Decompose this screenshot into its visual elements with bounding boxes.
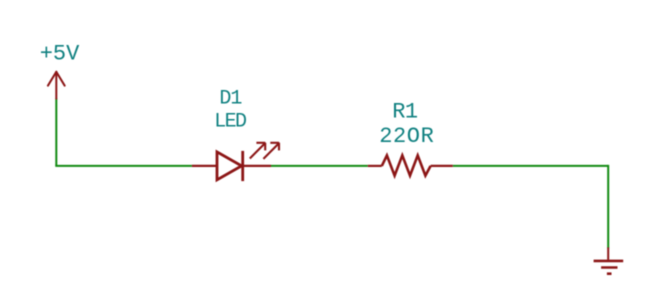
- svg-text:R1: R1: [392, 100, 418, 125]
- svg-text:22OR: 22OR: [379, 124, 434, 149]
- svg-text:LED: LED: [214, 111, 246, 134]
- svg-text:+5V: +5V: [40, 42, 80, 67]
- svg-text:D1: D1: [219, 88, 242, 111]
